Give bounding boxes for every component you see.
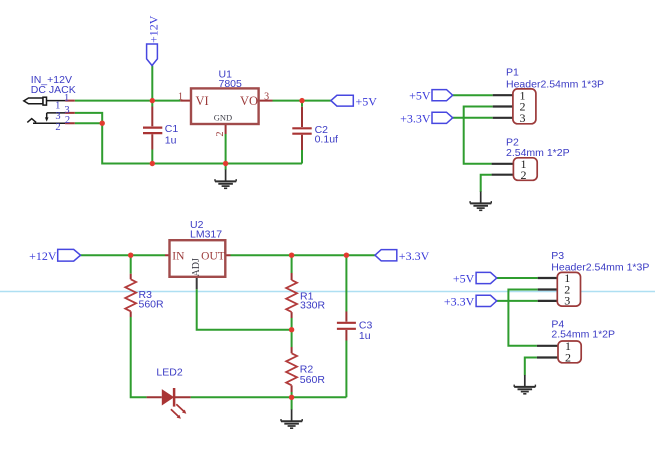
svg-text:+3.3V: +3.3V <box>399 249 430 263</box>
svg-text:3: 3 <box>564 294 570 308</box>
svg-text:3: 3 <box>264 92 269 103</box>
svg-text:+3.3V: +3.3V <box>444 294 475 308</box>
svg-text:+3.3V: +3.3V <box>400 111 431 125</box>
svg-text:2: 2 <box>215 132 226 137</box>
svg-text:ADJ: ADJ <box>191 258 202 276</box>
svg-text:1: 1 <box>55 100 60 111</box>
svg-text:+12V: +12V <box>147 15 161 43</box>
svg-text:P1: P1 <box>506 67 519 79</box>
svg-text:LED2: LED2 <box>156 367 182 379</box>
svg-text:LM317: LM317 <box>190 228 222 240</box>
svg-text:3: 3 <box>55 111 60 122</box>
svg-text:VI: VI <box>196 94 209 108</box>
svg-text:2: 2 <box>565 351 571 365</box>
svg-text:3: 3 <box>520 111 526 125</box>
svg-text:2.54mm 1*2P: 2.54mm 1*2P <box>506 147 570 159</box>
svg-text:0.1uf: 0.1uf <box>315 133 338 145</box>
svg-text:VO: VO <box>240 94 258 108</box>
svg-text:2: 2 <box>55 122 60 133</box>
svg-text:IN: IN <box>172 251 185 263</box>
svg-text:2: 2 <box>521 168 527 182</box>
svg-text:1: 1 <box>64 93 69 104</box>
svg-text:P3: P3 <box>551 250 564 262</box>
svg-text:7805: 7805 <box>219 78 243 90</box>
svg-text:+5V: +5V <box>356 94 378 108</box>
svg-text:560R: 560R <box>300 374 326 386</box>
svg-text:GND: GND <box>214 112 232 122</box>
svg-text:1u: 1u <box>165 135 177 147</box>
svg-text:+5V: +5V <box>409 89 431 103</box>
svg-text:330R: 330R <box>300 300 326 312</box>
svg-text:OUT: OUT <box>201 251 225 263</box>
svg-text:2.54mm 1*2P: 2.54mm 1*2P <box>551 329 615 341</box>
svg-text:2: 2 <box>65 115 70 126</box>
svg-text:C1: C1 <box>165 123 179 135</box>
svg-text:1u: 1u <box>359 330 371 342</box>
svg-text:+5V: +5V <box>453 272 475 286</box>
svg-text:560R: 560R <box>139 299 165 311</box>
svg-text:1: 1 <box>178 92 183 103</box>
svg-text:+12V: +12V <box>29 249 57 263</box>
